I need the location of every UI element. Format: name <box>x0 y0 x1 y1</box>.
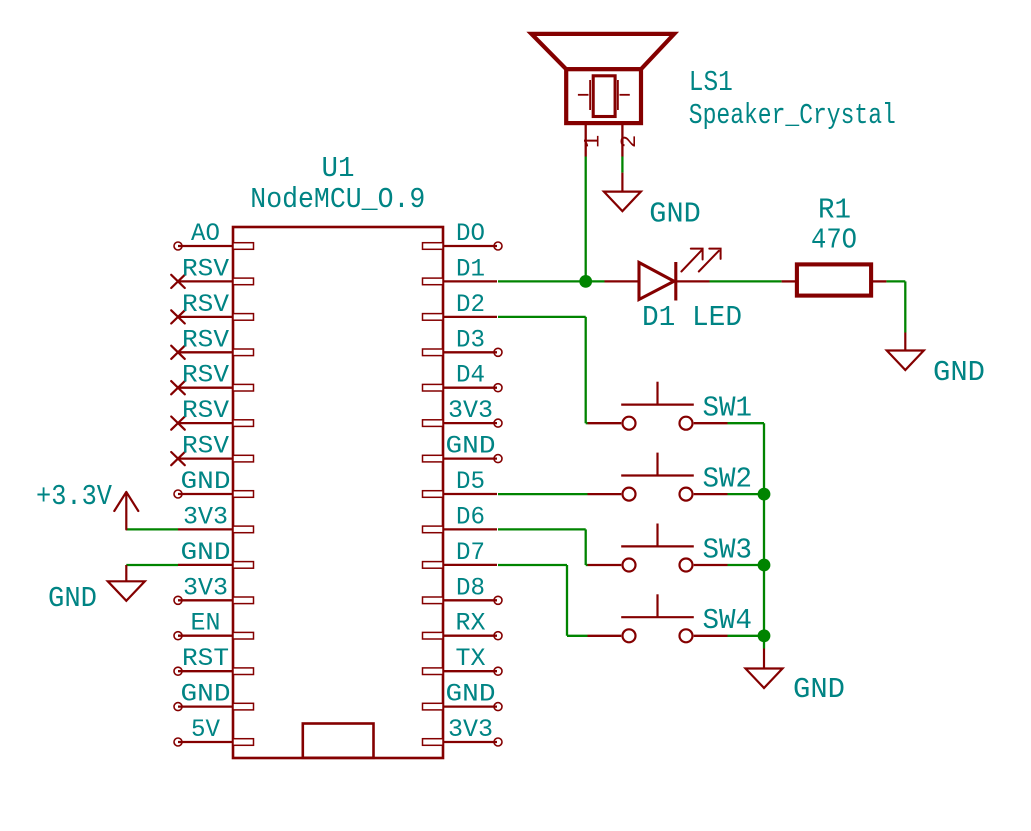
wire to SW4 pin <box>567 635 588 637</box>
U1 right pin 18 D2 <box>423 290 498 320</box>
wire U1 D6 horizontal <box>498 528 586 530</box>
svg-text:3V3: 3V3 <box>448 396 493 425</box>
wire R1 to corner <box>886 280 905 282</box>
svg-text:RX: RX <box>456 609 486 638</box>
svg-text:SW3: SW3 <box>703 533 753 566</box>
svg-text:1: 1 <box>581 135 606 148</box>
U1 left pin 14 GND <box>174 680 254 711</box>
junction SW2 bus <box>758 488 771 501</box>
LED D1 cathode bar <box>674 262 677 301</box>
svg-text:LS1: LS1 <box>689 66 733 99</box>
U1 left pin 1 AO <box>174 219 254 250</box>
switch SW2 <box>588 453 728 501</box>
speaker LS1 horn <box>531 34 674 69</box>
svg-text:RSV: RSV <box>182 361 229 390</box>
U1 right pin 19 D3 <box>423 325 503 356</box>
svg-text:AO: AO <box>191 219 220 248</box>
svg-text:GND: GND <box>933 356 985 389</box>
U1 usb notch <box>303 724 374 758</box>
U1 left pin 9 3V3 <box>178 502 254 532</box>
svg-text:SW2: SW2 <box>703 462 753 495</box>
resistor R1 body <box>797 264 871 295</box>
op-amp U1 NodeMCU_0.9 body <box>233 227 443 758</box>
junction SW4 bus <box>758 629 771 642</box>
svg-text:TX: TX <box>456 644 486 673</box>
U1 right pin 17 D1 <box>423 254 498 284</box>
U1 right pin 27 RX <box>423 609 503 640</box>
U1 right pin 25 D7 <box>423 538 498 568</box>
U1 left pin 12 EN <box>174 609 254 640</box>
svg-text:3V3: 3V3 <box>448 715 493 744</box>
U1 right pin 16 DO <box>423 219 503 250</box>
U1 right pin 24 D6 <box>423 502 498 532</box>
U1 left pin 13 RST <box>174 644 254 675</box>
U1 left pin 15 5V <box>174 715 254 746</box>
U1 right pin 22 GND <box>423 432 503 463</box>
svg-text:R1: R1 <box>818 194 851 227</box>
svg-text:+3.3V: +3.3V <box>36 480 113 513</box>
U1 right pin 29 GND <box>423 680 503 711</box>
wire speaker pin1 to junction <box>585 157 587 282</box>
speaker LS1 pin 2 <box>621 123 623 156</box>
wire U1 D5 to SW2 <box>498 493 588 495</box>
wire GND to U1 GND <box>126 564 178 566</box>
resistor R1 right pin <box>871 280 886 282</box>
svg-text:2: 2 <box>617 135 642 148</box>
switch SW1 <box>588 382 728 430</box>
U1 left pin 8 GND <box>174 467 254 498</box>
switch SW3 <box>588 524 728 572</box>
U1 right pin 20 D4 <box>423 361 503 392</box>
svg-text:GND: GND <box>48 582 97 615</box>
svg-text:DO: DO <box>456 219 485 248</box>
LED D1 pins <box>605 280 710 282</box>
svg-text:SW1: SW1 <box>703 392 753 425</box>
U1 left pin 10 GND <box>178 538 254 568</box>
speaker LS1 body <box>566 69 641 123</box>
wire SW4 to bus <box>728 635 765 637</box>
ground symbol at speaker pin 2 <box>604 173 641 212</box>
LED D1 arrow 2 <box>699 249 721 272</box>
svg-text:D1 LED: D1 LED <box>642 301 742 334</box>
wire speaker pin2 to GND <box>621 157 623 173</box>
wire U1 D1 to junction <box>498 280 605 282</box>
power symbol +3.3V arrow <box>114 492 138 529</box>
ground symbol at U1 left <box>108 565 145 601</box>
U1 left pin 4 RSV <box>171 325 253 359</box>
LED D1 triangle <box>639 263 674 300</box>
svg-text:D7: D7 <box>456 538 485 567</box>
junction SW3 bus <box>758 559 771 572</box>
U1 left pin 6 RSV <box>171 396 253 430</box>
svg-text:3V3: 3V3 <box>183 502 228 531</box>
svg-text:RST: RST <box>182 644 229 673</box>
wire D7 down to SW4 <box>566 565 568 636</box>
wire to SW3 pin <box>586 564 588 566</box>
svg-text:GND: GND <box>446 432 496 461</box>
svg-text:D3: D3 <box>456 325 485 354</box>
U1 right pin 23 D5 <box>423 467 498 497</box>
wire U1 D2 horizontal <box>498 316 586 318</box>
svg-text:GND: GND <box>446 680 496 709</box>
U1 right pin 30 3V3 <box>423 715 503 746</box>
U1 right pin 28 TX <box>423 644 503 675</box>
svg-text:3V3: 3V3 <box>183 573 228 602</box>
wire D2 down to SW1 <box>585 317 587 423</box>
svg-text:GND: GND <box>793 673 845 706</box>
svg-text:NodeMCU_O.9: NodeMCU_O.9 <box>250 183 425 216</box>
svg-text:D8: D8 <box>456 573 485 602</box>
wire LED to R1 <box>710 280 782 282</box>
svg-text:RSV: RSV <box>182 254 229 283</box>
ground symbol at switch bus <box>746 649 783 689</box>
svg-text:D1: D1 <box>456 254 485 283</box>
U1 left pin 2 RSV <box>171 254 253 288</box>
wire SW2 to bus <box>728 493 765 495</box>
U1 left pin 11 3V3 <box>174 573 254 604</box>
svg-text:GND: GND <box>649 198 701 231</box>
LED D1 arrow 1 <box>681 249 702 272</box>
U1 right pin 21 3V3 <box>423 396 503 427</box>
junction D1 node <box>579 275 592 288</box>
svg-text:D4: D4 <box>456 361 485 390</box>
wire to SW1 pin <box>586 422 588 424</box>
U1 right pin 26 D8 <box>423 573 503 604</box>
svg-text:5V: 5V <box>191 715 220 744</box>
svg-text:GND: GND <box>181 538 231 567</box>
svg-text:GND: GND <box>181 680 231 709</box>
wire R1 corner down to GND <box>904 281 906 332</box>
speaker LS1 pin 1 <box>585 123 587 156</box>
wire bus vertical <box>763 423 765 648</box>
switch SW4 <box>588 594 728 642</box>
svg-text:D2: D2 <box>456 290 485 319</box>
wire U1 D7 horizontal <box>498 564 567 566</box>
svg-text:RSV: RSV <box>182 396 229 425</box>
svg-text:Speaker_Crystal: Speaker_Crystal <box>689 99 896 132</box>
svg-text:D6: D6 <box>456 502 485 531</box>
U1 left pin 3 RSV <box>171 290 253 324</box>
ground symbol at R1 <box>887 333 924 371</box>
svg-text:D5: D5 <box>456 467 485 496</box>
wire SW1 to bus <box>728 422 765 424</box>
speaker LS1 crystal element <box>578 76 630 117</box>
wire SW3 to bus <box>728 564 765 566</box>
svg-text:SW4: SW4 <box>703 604 753 637</box>
svg-text:U1: U1 <box>322 152 355 185</box>
svg-text:RSV: RSV <box>182 325 229 354</box>
svg-text:47O: 47O <box>811 224 857 257</box>
svg-text:RSV: RSV <box>182 432 229 461</box>
wire D6 down to SW3 <box>585 529 587 565</box>
svg-text:EN: EN <box>191 609 221 638</box>
U1 left pin 7 RSV <box>171 432 253 466</box>
resistor R1 left pin <box>782 280 797 282</box>
svg-text:GND: GND <box>181 467 231 496</box>
svg-text:RSV: RSV <box>182 290 229 319</box>
U1 left pin 5 RSV <box>171 361 253 395</box>
wire +3.3V to U1 3V3 <box>126 528 178 530</box>
